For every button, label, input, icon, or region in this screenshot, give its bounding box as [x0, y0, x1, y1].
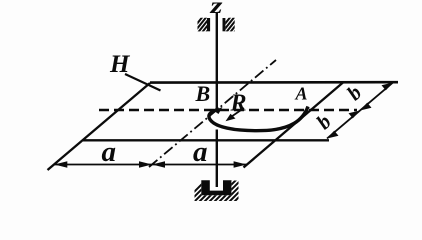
- svg-text:z: z: [209, 0, 222, 18]
- svg-text:A: A: [295, 84, 308, 104]
- svg-text:a: a: [102, 136, 117, 168]
- svg-text:B: B: [195, 81, 211, 106]
- svg-text:R: R: [230, 91, 247, 117]
- svg-text:a: a: [193, 136, 208, 168]
- svg-text:H: H: [109, 51, 131, 78]
